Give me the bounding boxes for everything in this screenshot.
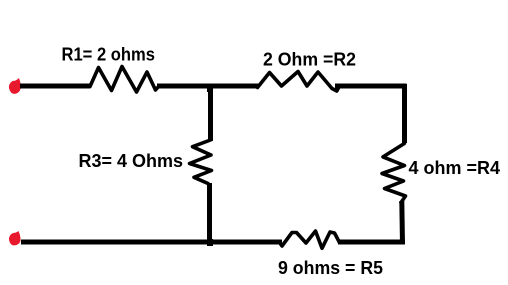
node: bottom junction	[207, 239, 213, 246]
wire: middle vertical, R3 to bottom junction	[207, 183, 212, 244]
svg-text:2 Ohm =R2: 2 Ohm =R2	[263, 50, 356, 70]
svg-text:4 ohm =R4: 4 ohm =R4	[409, 158, 501, 178]
wire: bottom-right corner to R5	[338, 240, 405, 245]
svg-text:R3= 4 Ohms: R3= 4 Ohms	[79, 151, 184, 171]
wire: bottom junction to node B	[21, 240, 212, 245]
terminal node A (red, top-left)	[9, 78, 21, 94]
wire: R1 to top junction	[157, 84, 213, 89]
svg-text:R1= 2 ohms: R1= 2 ohms	[62, 44, 156, 64]
resistor R2	[258, 72, 340, 92]
node: top junction	[207, 84, 213, 92]
wire: R2 to top-right corner	[335, 84, 407, 89]
svg-text:9 ohms = R5: 9 ohms = R5	[278, 258, 383, 278]
resistor R4	[382, 144, 406, 203]
wire: node A to R1	[20, 84, 90, 89]
resistor R5	[280, 231, 340, 248]
wire: top junction to R2	[208, 84, 259, 89]
wire: right vertical, corner to R4	[402, 84, 407, 143]
wire: right vertical, R4 to bottom-right corner	[399, 201, 405, 245]
terminal node B (red, bottom-left)	[9, 231, 21, 245]
resistor R3	[190, 140, 212, 184]
resistor R1	[90, 67, 159, 93]
wire: middle vertical, top junction to R3	[208, 84, 213, 141]
wire: R5 to bottom junction	[208, 240, 282, 245]
